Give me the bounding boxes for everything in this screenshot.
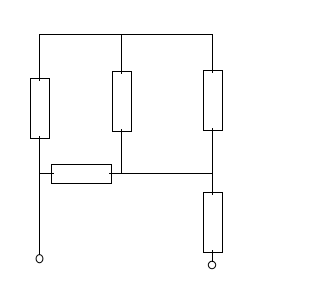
resistor R5 (right branch lower) [204,193,223,253]
wire: right branch middle (R4 pin 2 to R5 pin 1 through node E) [212,128,213,195]
resistor R2 (middle branch) [113,72,132,132]
resistor R1 (left branch) [31,79,50,139]
wire: right branch bottom (R5 pin 2 to terminal T2) [212,250,213,262]
resistor R3 (horizontal) [52,165,112,184]
resistor R4 (right branch upper) [204,71,223,131]
circuit schematic: three parallel branches with five resistors and two terminals [0,0,251,292]
wire: middle branch bottom (R2 pin 2 to node D) [121,129,122,174]
wire: horizontal right (R3 pin 2 through node D to node E) [109,173,213,174]
wire: horizontal left (left branch to R3 pin 1) [39,173,54,174]
wire: left branch top (node A to R1 pin 1) [39,34,40,81]
terminal T2 (right, open circle) [208,261,215,268]
wire: right branch top (node C to R4 pin 1) [212,34,213,73]
wire: middle branch top (node B to R2 pin 1) [121,34,122,74]
terminal T1 (left, open circle) [36,255,43,263]
wire: left branch bottom (R1 pin 2 to terminal T1) [39,136,40,255]
wire: top bus from node A to node C [39,34,213,35]
